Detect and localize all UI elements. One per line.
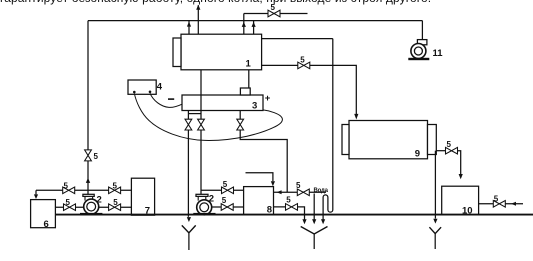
valve 5 below box 3 at x=240.2 (vertical)	[239, 111, 241, 120]
electrolyzer 3 box	[182, 95, 263, 111]
blower 11 body outer	[411, 44, 426, 59]
svg-text:4: 4	[157, 82, 163, 93]
wire: overflow pipe into box 8 top	[246, 173, 273, 181]
wire: lead from box 4 left terminal to plus electrode (big sweep)	[134, 93, 282, 140]
valve 5 upper-right of pump P2a	[109, 187, 115, 194]
arrow up on pump discharge x=88	[86, 178, 90, 183]
wire: lead from box 4 right terminal to minus electrode	[150, 93, 182, 107]
terminal dot left of box 4	[133, 91, 136, 94]
svg-text:5: 5	[94, 152, 99, 161]
valve 5 lower-left of pump P2a	[64, 204, 70, 211]
wire: drain x=240.2 route right and down to water line	[240, 130, 287, 192]
center funnel	[301, 227, 328, 235]
arrow down into box 8	[271, 181, 275, 186]
svg-text:3: 3	[252, 101, 257, 112]
svg-text:5: 5	[222, 196, 227, 205]
svg-text:5: 5	[113, 198, 118, 207]
right funnel stem	[434, 234, 436, 249]
svg-text:5: 5	[113, 181, 118, 190]
left funnel	[182, 225, 196, 233]
valve 5 (V5d)	[446, 147, 452, 154]
valve 5 below box 3 at x=188.4 (vertical)	[187, 111, 189, 120]
pump P2b hat	[196, 194, 208, 196]
pump P2b base	[193, 213, 215, 215]
arrow left into box 8	[277, 190, 282, 194]
wire: drop from line A x=422.4 to blower 11	[421, 21, 423, 40]
right funnel	[429, 227, 441, 233]
valve 5 (V5g)	[286, 204, 292, 211]
arrow down into center funnel (from drain)	[302, 219, 306, 224]
wire: drop into tank 6	[35, 190, 37, 194]
svg-text:5: 5	[66, 198, 71, 207]
wire: lower pipe y=207.2 from tank 6 to tank 7	[55, 206, 131, 208]
wire: vessel 1 bottom through box 3 x=201	[200, 70, 202, 119]
wire: drain x=201 down to pump P2b	[200, 130, 202, 195]
arrow up on riser x=253.6	[252, 22, 256, 27]
wire: line C continues to separator 9 inlet	[310, 65, 357, 114]
valve 5 (V5c)	[298, 62, 304, 69]
blower 11 flange	[417, 40, 427, 45]
valve 5 upper-left of pump P2a	[63, 187, 69, 194]
arrow down into center funnel (overflow)	[312, 219, 316, 224]
arrow up on vent x=198.3	[196, 5, 200, 10]
svg-text:5: 5	[447, 140, 452, 149]
arrow down into left funnel	[187, 217, 191, 222]
wire: upper suction pipe y=190.3	[36, 189, 131, 191]
wire: overflow drop x=314.2	[313, 194, 315, 220]
valve 5 (V5a) on left downcomer	[85, 150, 92, 156]
arrow down into right funnel	[433, 219, 437, 224]
control box 4	[128, 80, 156, 94]
arrow down into tank 10	[459, 174, 463, 179]
wire: left main downcomer x=88 from line A to pump P2a	[87, 21, 89, 150]
svg-text:11: 11	[433, 48, 444, 59]
wire: outlet right of tank 10 y=203.8	[479, 203, 523, 205]
wire: downcomer continues below valve to pump	[87, 161, 89, 196]
wire: tick joining the two left stems	[188, 113, 201, 115]
svg-text:5: 5	[286, 196, 291, 205]
tank 7	[131, 178, 154, 215]
tank 8	[244, 187, 274, 215]
vessel 1 body	[181, 34, 262, 70]
tank 6	[31, 200, 56, 228]
tank 10	[442, 186, 479, 215]
wire: header line A y=20.6 from x=88 to x=422.4	[88, 20, 422, 22]
svg-text:9: 9	[415, 148, 420, 159]
valve 5 lower P2b	[221, 204, 227, 211]
vessel 1 left cap	[173, 38, 181, 67]
valve 5 lower-right of pump P2a	[109, 204, 115, 211]
separator 9 body	[349, 121, 428, 159]
svg-text:5: 5	[296, 181, 301, 190]
arrow left after valve V5e	[511, 202, 516, 206]
svg-text:5: 5	[300, 55, 305, 64]
wire: vessel 1 bottom to notch x=248.8	[248, 70, 250, 88]
wire: vessel 1 upper right outlet y=38.6 to trap downcomer	[262, 38, 333, 40]
arrow down into center funnel (trap leg)	[321, 219, 325, 224]
caption text (clipped at top edge)	[0, 0, 431, 5]
wire: riser x=243.8 from vessel 1 top to line B	[243, 14, 245, 35]
wire: vessel 1 lower right outlet y=65.4 (to valve V5c)	[262, 64, 298, 66]
arrow down into tank 6	[34, 194, 38, 199]
wire: drain x=188.4 down to ground	[187, 130, 189, 217]
separator 9 right cap	[428, 125, 437, 155]
valve 5 (V5e)	[493, 201, 499, 208]
wire: outlet right of separator 9 y=150.7	[436, 150, 445, 152]
wire: lower pipe P2b to box 8	[211, 206, 243, 208]
svg-text:Вода: Вода	[314, 188, 329, 194]
pump P2a base	[80, 213, 102, 215]
valve 5 (V5f) on water line	[297, 189, 303, 196]
ground line	[55, 214, 533, 216]
valve 5 (V5b) on line B	[268, 10, 274, 17]
arrow up on riser x=189	[187, 22, 191, 27]
arrow down into vessel 9	[354, 114, 358, 120]
pump P2a hat	[83, 194, 94, 196]
wire: from valve down to tank 10	[458, 151, 461, 175]
pump P2a body	[84, 199, 99, 214]
pump P2b body	[197, 200, 212, 215]
left funnel stem	[188, 233, 190, 250]
hydraulic seal loop (trap)	[323, 39, 333, 220]
svg-text:5: 5	[64, 181, 69, 190]
valve 5 upper P2b	[222, 187, 228, 194]
separator 9 left cap	[342, 125, 349, 155]
wire: lower drain right of box 8 y=206.9	[274, 207, 305, 220]
wire: vent x=198.3 from vessel 1 top up	[197, 5, 199, 34]
wire: riser x=253.6 from vessel 1 top to line A	[253, 21, 255, 35]
wire: upper pipe P2b to box 8	[201, 189, 244, 191]
wire: line B y=13.5 from riser to open end	[244, 13, 308, 15]
svg-text:5: 5	[271, 3, 276, 12]
wire: separator 9 drain x=435.4 down to funnel	[434, 151, 436, 219]
blower 11 base	[408, 58, 429, 60]
svg-text:2: 2	[209, 194, 214, 205]
terminal dot right of box 4	[149, 91, 152, 94]
electrolyzer 3 top notch	[240, 88, 250, 95]
svg-text:1: 1	[246, 59, 252, 70]
svg-text:2: 2	[97, 194, 102, 205]
label minus	[168, 98, 174, 100]
svg-text:+: +	[265, 93, 271, 104]
svg-text:5: 5	[223, 180, 228, 189]
svg-text:5: 5	[494, 194, 499, 203]
center funnel stem	[313, 234, 315, 249]
valve 5 below box 3 at x=201 (vertical)	[198, 119, 205, 124]
wire: riser x=189 from vessel 1 top to line A	[188, 21, 190, 35]
blower 11 body inner	[414, 47, 422, 55]
svg-text:6: 6	[44, 219, 49, 230]
arrow up on riser x=243.8	[242, 22, 246, 27]
wire: water line y=192.3 right of box 8	[274, 191, 327, 193]
